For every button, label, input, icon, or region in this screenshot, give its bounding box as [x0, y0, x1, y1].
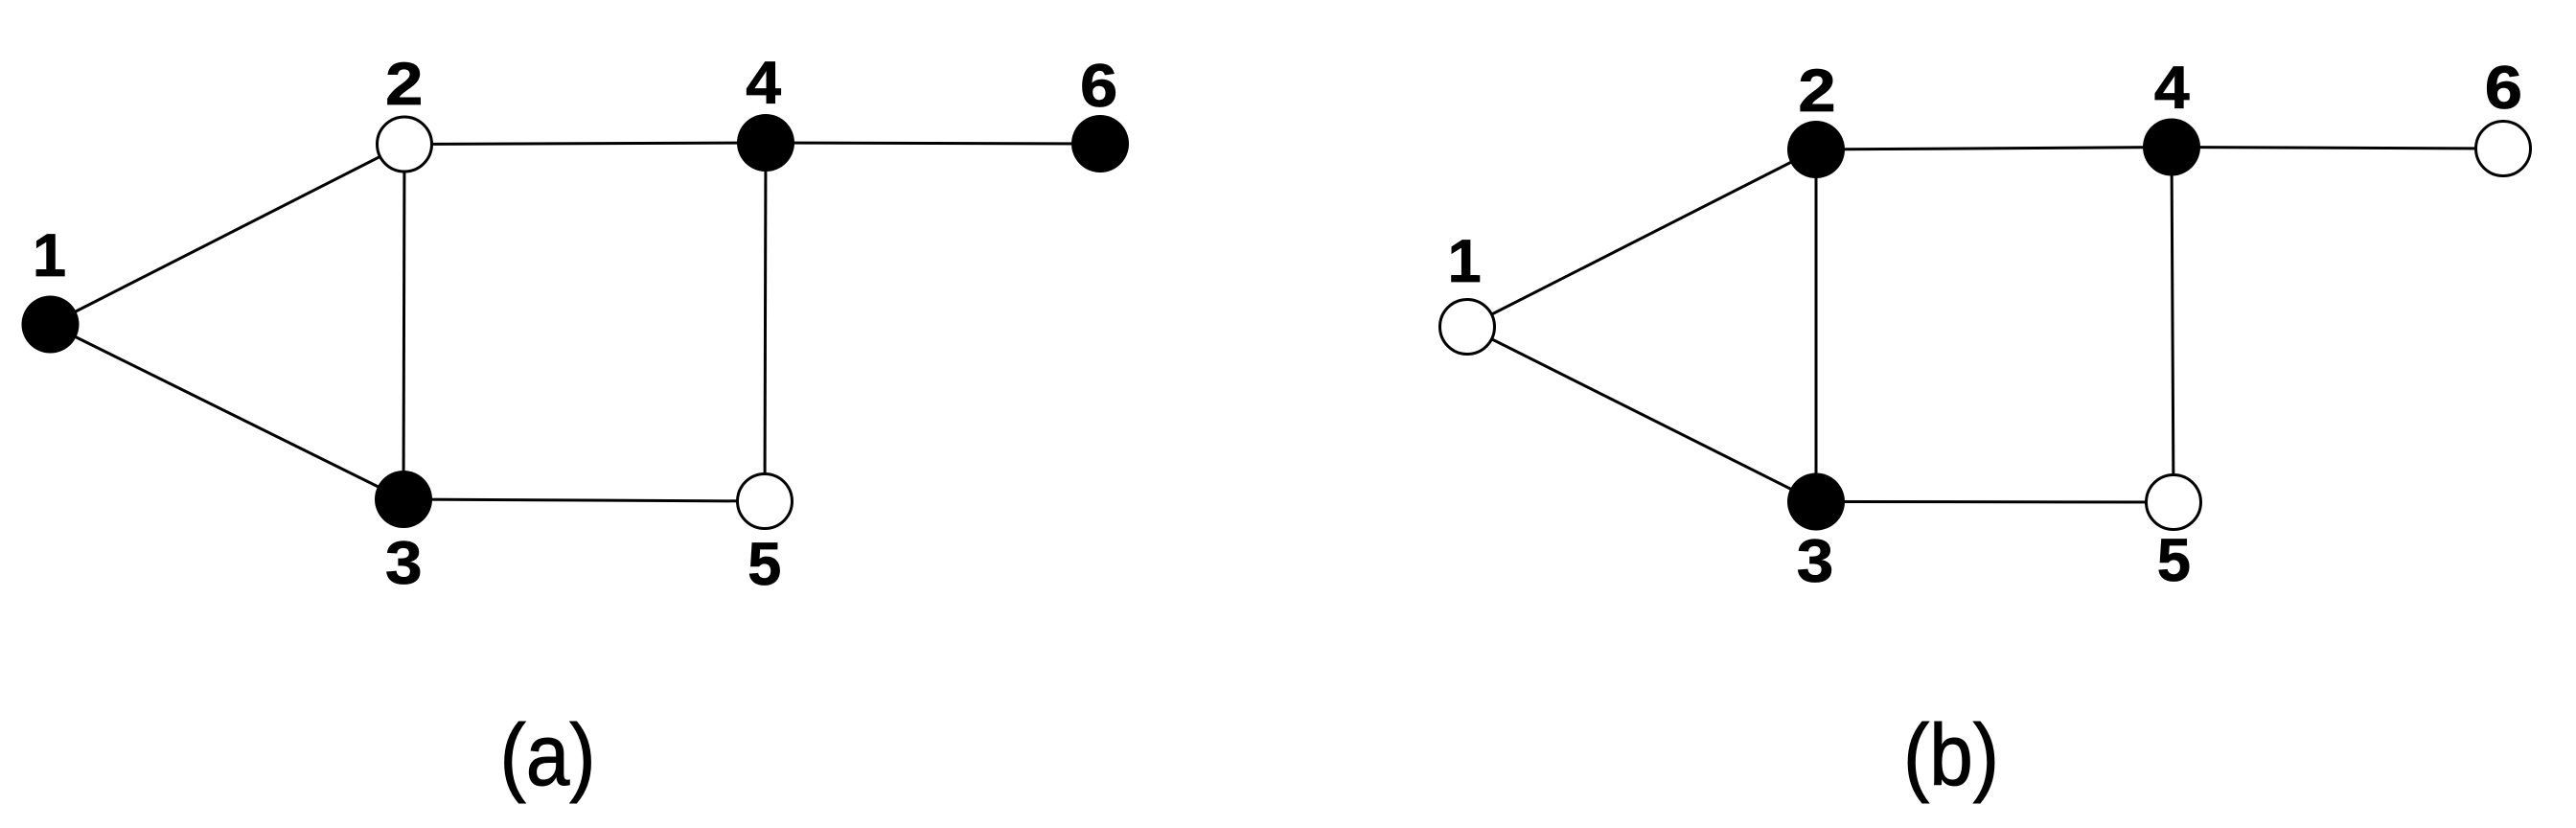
- wire edge 1-2 (b): [1467, 149, 1816, 327]
- node 5 (b) open: [2147, 475, 2201, 530]
- node 3 (b) filled: [1787, 473, 1845, 531]
- node 1 (b) open: [1440, 300, 1495, 355]
- node 4 (a) filled: [737, 114, 794, 172]
- svg-text:(a): (a): [499, 707, 595, 804]
- svg-text:1: 1: [1448, 228, 1482, 295]
- svg-text:4: 4: [2154, 54, 2190, 121]
- svg-text:4: 4: [746, 49, 781, 116]
- svg-text:3: 3: [1797, 528, 1834, 595]
- wire edge 4-6 (b): [2172, 148, 2503, 149]
- node 5 (a) open: [738, 474, 793, 529]
- node 2 (b) filled: [1787, 121, 1845, 178]
- wire edge 4-5 (b): [2172, 148, 2173, 503]
- wire edge 1-2 (a): [51, 145, 405, 325]
- wire edge 1-3 (b): [1467, 327, 1816, 502]
- svg-text:1: 1: [33, 222, 66, 289]
- node 1 (a) filled: [22, 296, 80, 354]
- svg-text:5: 5: [2157, 527, 2191, 594]
- node 4 (b) filled: [2143, 119, 2200, 176]
- wire edge 3-5 (b): [1816, 500, 2173, 504]
- wire edge 2-3 (a): [403, 145, 404, 500]
- node 3 (a) filled: [375, 471, 432, 528]
- wire edge 1-3 (a): [51, 325, 404, 500]
- wire edge 2-4 (a): [404, 143, 766, 145]
- svg-text:(b): (b): [1903, 707, 1999, 804]
- svg-text:6: 6: [1080, 52, 1117, 120]
- wire edge 2-3 (b): [1815, 149, 1818, 502]
- svg-text:5: 5: [747, 531, 781, 598]
- svg-text:3: 3: [385, 530, 423, 597]
- svg-text:6: 6: [2485, 54, 2522, 122]
- wire edge 4-6 (a): [766, 143, 1100, 144]
- wire edge 3-5 (a): [403, 499, 765, 501]
- node 6 (b) open: [2476, 122, 2531, 176]
- svg-text:2: 2: [1798, 57, 1835, 125]
- wire edge 4-5 (a): [765, 143, 766, 501]
- node 2 (a) open: [378, 117, 432, 172]
- svg-text:2: 2: [385, 50, 423, 118]
- node 6 (a) filled: [1071, 115, 1129, 172]
- wire edge 2-4 (b): [1816, 148, 2172, 150]
